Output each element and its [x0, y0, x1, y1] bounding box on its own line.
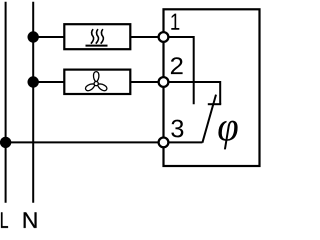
humidity symbol phi — [218, 121, 237, 150]
switch lever — [202, 95, 216, 143]
terminal 3 (circle) — [159, 138, 169, 148]
heater E1 hot-surface symbol (3 waves + base line) — [86, 29, 108, 45]
pin label 2 — [171, 57, 183, 74]
wire L phase line (vertical) — [5, 2, 7, 203]
terminal 1 (circle) — [159, 32, 169, 42]
fan M1 (box) — [64, 70, 130, 94]
pin label 1 — [171, 14, 179, 30]
terminal 2 (circle) — [159, 77, 169, 87]
label L — [1, 212, 8, 228]
junction dot on L at terminal-3 branch — [0, 137, 11, 148]
junction dot on N at heater branch — [28, 31, 39, 42]
hygrostat U1 (enclosure box) — [164, 9, 260, 166]
wire N to terminal 1 (heater branch) — [33, 36, 163, 38]
wire N to terminal 2 (fan branch) — [33, 81, 163, 83]
pin label 3 — [171, 120, 183, 138]
wire terminal 2 to fixed contact B — [164, 82, 221, 104]
wire L to terminal 3 — [6, 141, 164, 143]
fan M1 propeller symbol — [84, 72, 107, 92]
label N — [24, 212, 37, 228]
wire terminal 1 to fixed contact A — [164, 37, 194, 104]
junction dot on N at fan branch — [28, 76, 39, 87]
wire N neutral line (vertical) — [32, 2, 34, 203]
wire terminal 3 to switch pivot — [164, 141, 203, 143]
contact B tick — [208, 103, 221, 105]
heater E1 (box) — [64, 24, 130, 49]
